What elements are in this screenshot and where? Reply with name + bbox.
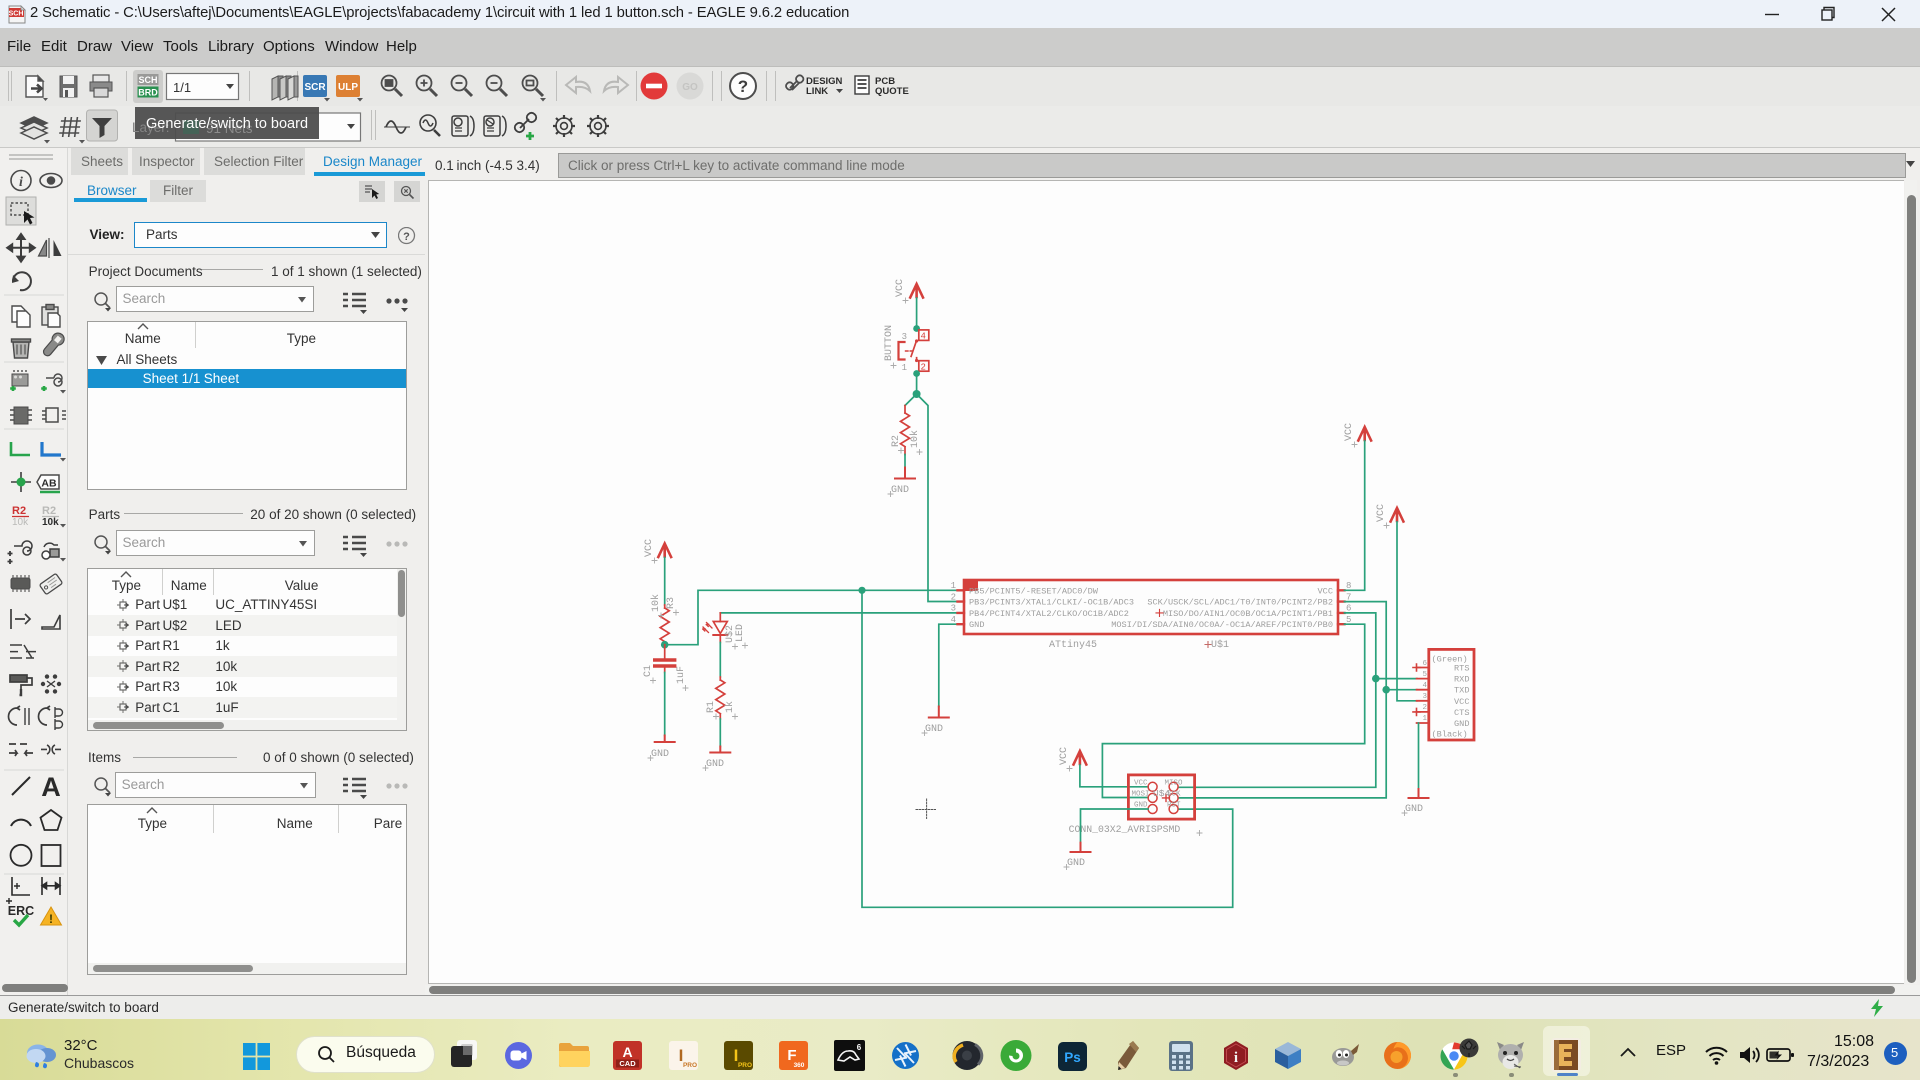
junction button pin1 xyxy=(913,370,920,377)
avg sphere xyxy=(951,1040,984,1071)
svg-text:PRO: PRO xyxy=(683,1062,697,1069)
pinswap xyxy=(41,374,66,394)
power VCC symbol (R3) xyxy=(658,544,671,558)
LED U$2 xyxy=(703,613,728,643)
paint roller xyxy=(10,675,32,695)
firefox xyxy=(1383,1041,1412,1070)
undo (disabled) xyxy=(566,77,590,93)
filter button (pressed) xyxy=(87,110,118,141)
trash xyxy=(12,339,31,358)
wire IC pin5 to MOSI xyxy=(1102,624,1364,797)
wire tool xyxy=(11,442,30,455)
design link xyxy=(785,74,805,91)
svg-text:VCC: VCC xyxy=(895,279,906,297)
sheet combo 1/1 xyxy=(167,74,239,100)
svg-text:PB3/PCINT3/XTAL1/CLKI/-OC1B/AD: PB3/PCINT3/XTAL1/CLKI/-OC1B/ADC3 xyxy=(969,598,1134,608)
svg-text:R2: R2 xyxy=(12,505,26,517)
zoom select xyxy=(523,76,544,97)
print icon xyxy=(90,75,112,97)
rect xyxy=(42,845,61,866)
svg-text:BUTTON: BUTTON xyxy=(884,325,895,361)
svg-text:R3: R3 xyxy=(666,597,677,609)
wire IC pin8 to VCC xyxy=(1345,441,1365,590)
bottom hscroll thumb xyxy=(2,984,68,992)
svg-text:1: 1 xyxy=(951,581,956,591)
replace xyxy=(42,408,66,422)
svg-text:MISO: MISO xyxy=(1165,780,1184,788)
top tabs xyxy=(71,148,128,175)
items xyxy=(88,750,121,765)
junction button pin3 xyxy=(913,325,920,332)
tooltip xyxy=(132,107,319,139)
invoke xyxy=(11,609,31,629)
add part xyxy=(10,370,28,391)
svg-text:6: 6 xyxy=(1422,660,1427,668)
svg-text:GND: GND xyxy=(651,749,669,760)
svg-text:2: 2 xyxy=(951,592,956,602)
svg-text:RST: RST xyxy=(1167,802,1181,810)
horizontal scrollbar xyxy=(88,720,397,731)
svg-text:1k: 1k xyxy=(724,701,736,713)
svg-text:TXD: TXD xyxy=(1454,686,1469,696)
ground GND (R2) xyxy=(895,468,915,479)
gate swap xyxy=(10,407,32,424)
canvas horizontal scrollbar xyxy=(425,985,1920,996)
wire TXD xyxy=(1386,689,1417,691)
inventor xyxy=(669,1041,698,1070)
label AB xyxy=(37,475,60,492)
svg-text:SCH: SCH xyxy=(138,75,157,85)
infraworks xyxy=(724,1041,753,1070)
chrome + ball xyxy=(1438,1038,1480,1071)
smash xyxy=(41,674,61,693)
junction node BTN xyxy=(913,390,921,398)
svg-text:RXD: RXD xyxy=(1454,675,1469,685)
polygon xyxy=(41,810,62,830)
svg-text:Ps: Ps xyxy=(1064,1050,1081,1065)
zoom out xyxy=(452,76,473,97)
meter icon 1 xyxy=(452,116,474,136)
redo (disabled) xyxy=(604,77,628,93)
power VCC symbol (AVRISP) xyxy=(1074,751,1087,765)
wire IC pin3 to LED xyxy=(720,612,958,614)
gear 2 xyxy=(587,115,609,137)
canvas vertical scrollbar xyxy=(1905,180,1917,984)
browser/filter tabs xyxy=(150,180,206,202)
svg-text:i: i xyxy=(19,175,23,190)
gimp xyxy=(1329,1041,1361,1070)
view row xyxy=(90,227,125,242)
wire VCC to FTDI VCC pin xyxy=(1397,522,1417,701)
copy xyxy=(12,306,30,327)
svg-text:(Black): (Black) xyxy=(1432,730,1468,740)
power VCC symbol (IC pin8) xyxy=(1358,427,1371,441)
power VCC symbol (above button) xyxy=(910,284,923,298)
svg-text:MISO/DO/AIN1/OC0B/OC1A/PCINT1/: MISO/DO/AIN1/OC0B/OC1A/PCINT1/PB1 xyxy=(1163,609,1333,619)
svg-text:GND: GND xyxy=(1405,804,1423,815)
origin cross R2 xyxy=(899,448,923,455)
grid icon xyxy=(59,117,82,137)
table 1 xyxy=(87,321,407,489)
junction TXD xyxy=(1382,686,1390,694)
svg-text:ULP: ULP xyxy=(338,82,358,93)
svg-text:AB: AB xyxy=(41,478,57,490)
switch S1 BUTTON xyxy=(899,330,929,371)
ULP button xyxy=(336,75,360,97)
svg-text:2: 2 xyxy=(921,363,926,373)
net crossing xyxy=(10,645,36,658)
table 2 xyxy=(87,568,407,731)
sine icon xyxy=(386,121,406,133)
svg-text:3: 3 xyxy=(951,604,956,614)
svg-text:6: 6 xyxy=(857,1043,862,1052)
ic dark xyxy=(11,575,30,592)
svg-text:ATtiny45: ATtiny45 xyxy=(1049,639,1097,651)
wire IC pin4 to GND xyxy=(939,624,958,706)
wire node to R2 xyxy=(905,394,917,406)
ground GND (AVRISP) xyxy=(1071,843,1091,852)
svg-text:VCC: VCC xyxy=(1454,697,1469,707)
tray xyxy=(1616,1042,1640,1066)
svg-text:R2: R2 xyxy=(42,505,56,517)
autocad xyxy=(613,1041,642,1070)
pencil app xyxy=(1114,1039,1142,1072)
pcb quote xyxy=(855,76,869,94)
svg-text:U$1: U$1 xyxy=(1211,639,1229,651)
meter icon 2 xyxy=(484,116,506,136)
coil 2 xyxy=(39,706,63,730)
miter/pin tools xyxy=(8,541,33,564)
red-i app xyxy=(1221,1040,1251,1071)
rhino 6 xyxy=(834,1040,865,1071)
irfan cat xyxy=(1494,1040,1527,1071)
wire IC pin7 to SCK xyxy=(1179,602,1386,798)
svg-text:VCC: VCC xyxy=(1344,423,1355,441)
eye xyxy=(40,174,62,188)
parts xyxy=(89,507,121,522)
wire VCC to AVRISP VCC pin xyxy=(1080,765,1148,787)
svg-text:1: 1 xyxy=(1422,715,1427,723)
start xyxy=(243,1043,270,1070)
svg-text:BRD: BRD xyxy=(138,88,158,98)
svg-text:R2: R2 xyxy=(891,435,902,447)
wire RESET loop to AVRISP RST xyxy=(862,590,1233,907)
resistor R2 xyxy=(901,406,910,455)
wire C1 to GND xyxy=(664,673,666,736)
SCH/BRD button xyxy=(133,70,163,103)
wire R1 to GND xyxy=(719,719,721,747)
warning xyxy=(41,907,62,925)
link plus xyxy=(513,111,538,134)
svg-text:A: A xyxy=(41,772,61,802)
select tool (pressed) xyxy=(6,197,36,225)
ground GND (R1) xyxy=(710,747,730,753)
split xyxy=(9,744,33,756)
junction xyxy=(11,472,31,492)
cura xyxy=(999,1039,1033,1072)
svg-text:C1: C1 xyxy=(643,665,654,677)
svg-text:MOSI/DI/SDA/AIN0/OC0A/-OC1A/AR: MOSI/DI/SDA/AIN0/OC0A/-OC1A/AREF/PCINT0/… xyxy=(1111,620,1333,630)
svg-text:VCC: VCC xyxy=(1134,780,1148,788)
line xyxy=(12,777,30,795)
resistor R1 xyxy=(716,677,725,719)
wire button to node xyxy=(916,374,918,395)
arc xyxy=(11,820,31,826)
svg-text:CTS: CTS xyxy=(1454,708,1469,718)
svg-text:1/1: 1/1 xyxy=(173,80,191,95)
explorer xyxy=(558,1041,591,1070)
svg-text:GND: GND xyxy=(1454,719,1469,729)
calculator xyxy=(1166,1041,1196,1071)
wire node to IC pin2 xyxy=(917,394,958,602)
svg-text:GND: GND xyxy=(1067,858,1085,869)
svg-text:?: ? xyxy=(738,77,748,96)
wire RXD xyxy=(1376,678,1417,680)
aperture app xyxy=(891,1041,920,1070)
svg-text:CAD: CAD xyxy=(619,1059,636,1068)
wire VCC to R3 xyxy=(664,558,666,606)
origin cross BUTTON xyxy=(891,363,896,368)
svg-text:VCC: VCC xyxy=(1059,747,1070,765)
svg-text:RTS: RTS xyxy=(1454,664,1469,674)
origin cross VCC button xyxy=(903,298,908,303)
virtualbox xyxy=(1273,1041,1303,1070)
wire RC node to IC pin1 (RESET) xyxy=(665,590,958,644)
tag xyxy=(39,573,62,594)
junction node RC xyxy=(661,641,669,649)
svg-text:MOSI: MOSI xyxy=(1132,791,1150,799)
project documents xyxy=(89,264,203,279)
svg-text:GO: GO xyxy=(682,82,698,93)
svg-text:ERC: ERC xyxy=(8,904,34,918)
svg-text:5: 5 xyxy=(1422,671,1427,679)
svg-text:U$4: U$4 xyxy=(1153,788,1170,799)
svg-text:A: A xyxy=(622,1044,632,1060)
mouse crosshair xyxy=(916,799,937,820)
info xyxy=(11,171,31,191)
resistor R3 xyxy=(660,605,669,645)
zoom fit xyxy=(382,76,403,97)
junction RESET loop xyxy=(858,587,865,594)
svg-text:SCK/USCK/SCL/ADC1/T0/INT0/PCIN: SCK/USCK/SCL/ADC1/T0/INT0/PCINT2/PB2 xyxy=(1147,598,1333,608)
zoom 1:1 xyxy=(487,76,508,97)
wrench xyxy=(40,331,66,359)
svg-text:LINK: LINK xyxy=(806,86,828,97)
svg-text:10k: 10k xyxy=(909,430,921,448)
task view xyxy=(449,1038,479,1070)
origin cross U$1 (red) xyxy=(1156,609,1163,616)
paste xyxy=(42,305,60,328)
svg-text:?: ? xyxy=(403,231,410,243)
coil 1 xyxy=(9,706,30,725)
svg-text:!: ! xyxy=(49,912,53,926)
svg-text:3: 3 xyxy=(902,332,907,342)
svg-text:GND: GND xyxy=(925,724,943,735)
go (disabled) xyxy=(677,73,704,100)
svg-text:i: i xyxy=(1234,1050,1238,1066)
gear 1 xyxy=(553,115,575,137)
svg-text:2: 2 xyxy=(1422,704,1427,712)
new/open icon xyxy=(26,76,43,97)
svg-text:GND: GND xyxy=(891,485,909,496)
rotate xyxy=(13,272,31,290)
weather xyxy=(24,1040,58,1070)
layer combo xyxy=(176,113,361,141)
svg-text:PB5/PCINT5/-RESET/ADC0/DW: PB5/PCINT5/-RESET/ADC0/DW xyxy=(969,586,1099,596)
layers icon xyxy=(21,117,47,139)
dimension xyxy=(6,877,30,904)
svg-text:4: 4 xyxy=(921,332,926,342)
svg-text:10k: 10k xyxy=(650,594,662,612)
svg-text:10k: 10k xyxy=(12,517,29,528)
power VCC symbol (FTDI) xyxy=(1391,508,1404,522)
zoom in xyxy=(417,76,438,97)
vertical scrollbar xyxy=(397,569,407,731)
bus tool xyxy=(42,442,61,455)
svg-text:SCH: SCH xyxy=(9,11,24,18)
capacitor C1 xyxy=(655,645,675,673)
move xyxy=(7,234,35,262)
slope xyxy=(42,615,60,629)
photoshop xyxy=(1058,1042,1087,1071)
svg-text:4: 4 xyxy=(951,615,956,625)
connector box U$4 xyxy=(1128,775,1194,819)
svg-text:Generate/switch to board: Generate/switch to board xyxy=(146,116,308,132)
fusion 360 xyxy=(779,1041,808,1070)
svg-text:1uF: 1uF xyxy=(676,666,687,684)
svg-text:R1: R1 xyxy=(706,701,717,713)
library books xyxy=(272,76,298,100)
ground GND (C1) xyxy=(655,736,675,743)
wire VCC to button pin 3 xyxy=(916,298,918,329)
ground GND (IC) xyxy=(929,707,949,718)
table 3 xyxy=(87,804,407,975)
svg-text:3: 3 xyxy=(1422,693,1427,701)
mirror xyxy=(39,238,50,258)
wire R2 to GND xyxy=(904,455,906,468)
wire AVRISP GND pin to ground xyxy=(1081,809,1149,843)
sine magnifier xyxy=(420,115,440,136)
svg-text:QUOTE: QUOTE xyxy=(875,86,909,97)
svg-text:4: 4 xyxy=(1422,682,1427,690)
svg-text:360: 360 xyxy=(794,1062,805,1069)
circle xyxy=(11,845,32,866)
wire FTDI GND to ground xyxy=(1418,723,1420,789)
svg-text:1: 1 xyxy=(902,363,907,373)
svg-text:VCC: VCC xyxy=(1318,586,1333,596)
svg-text:CONN_03X2_AVRISPSMD: CONN_03X2_AVRISPSMD xyxy=(1069,824,1181,835)
running dots xyxy=(1453,1073,1458,1077)
svg-text:PRO: PRO xyxy=(738,1062,752,1069)
save icon xyxy=(60,76,77,97)
svg-text:GND: GND xyxy=(706,759,724,770)
svg-text:10k: 10k xyxy=(42,517,59,528)
svg-text:GND: GND xyxy=(969,620,984,630)
eagle highlight xyxy=(1543,1026,1590,1076)
svg-text:PB4/PCINT4/XTAL2/CLKO/OC1B/ADC: PB4/PCINT4/XTAL2/CLKO/OC1B/ADC2 xyxy=(969,609,1129,619)
search pill xyxy=(296,1036,435,1073)
wire IC pin6 to MISO xyxy=(1179,613,1376,787)
wire LED to R1 xyxy=(719,643,721,678)
junction RXD xyxy=(1372,675,1380,683)
chat xyxy=(504,1041,533,1070)
help xyxy=(730,73,756,99)
stop (red) xyxy=(641,73,668,100)
svg-text:VCC: VCC xyxy=(644,539,655,557)
svg-text:LED: LED xyxy=(735,624,746,642)
SCR button xyxy=(303,75,327,97)
svg-text:VCC: VCC xyxy=(1376,504,1387,522)
ground GND (FTDI) xyxy=(1409,789,1429,798)
svg-text:SCR: SCR xyxy=(304,82,326,93)
